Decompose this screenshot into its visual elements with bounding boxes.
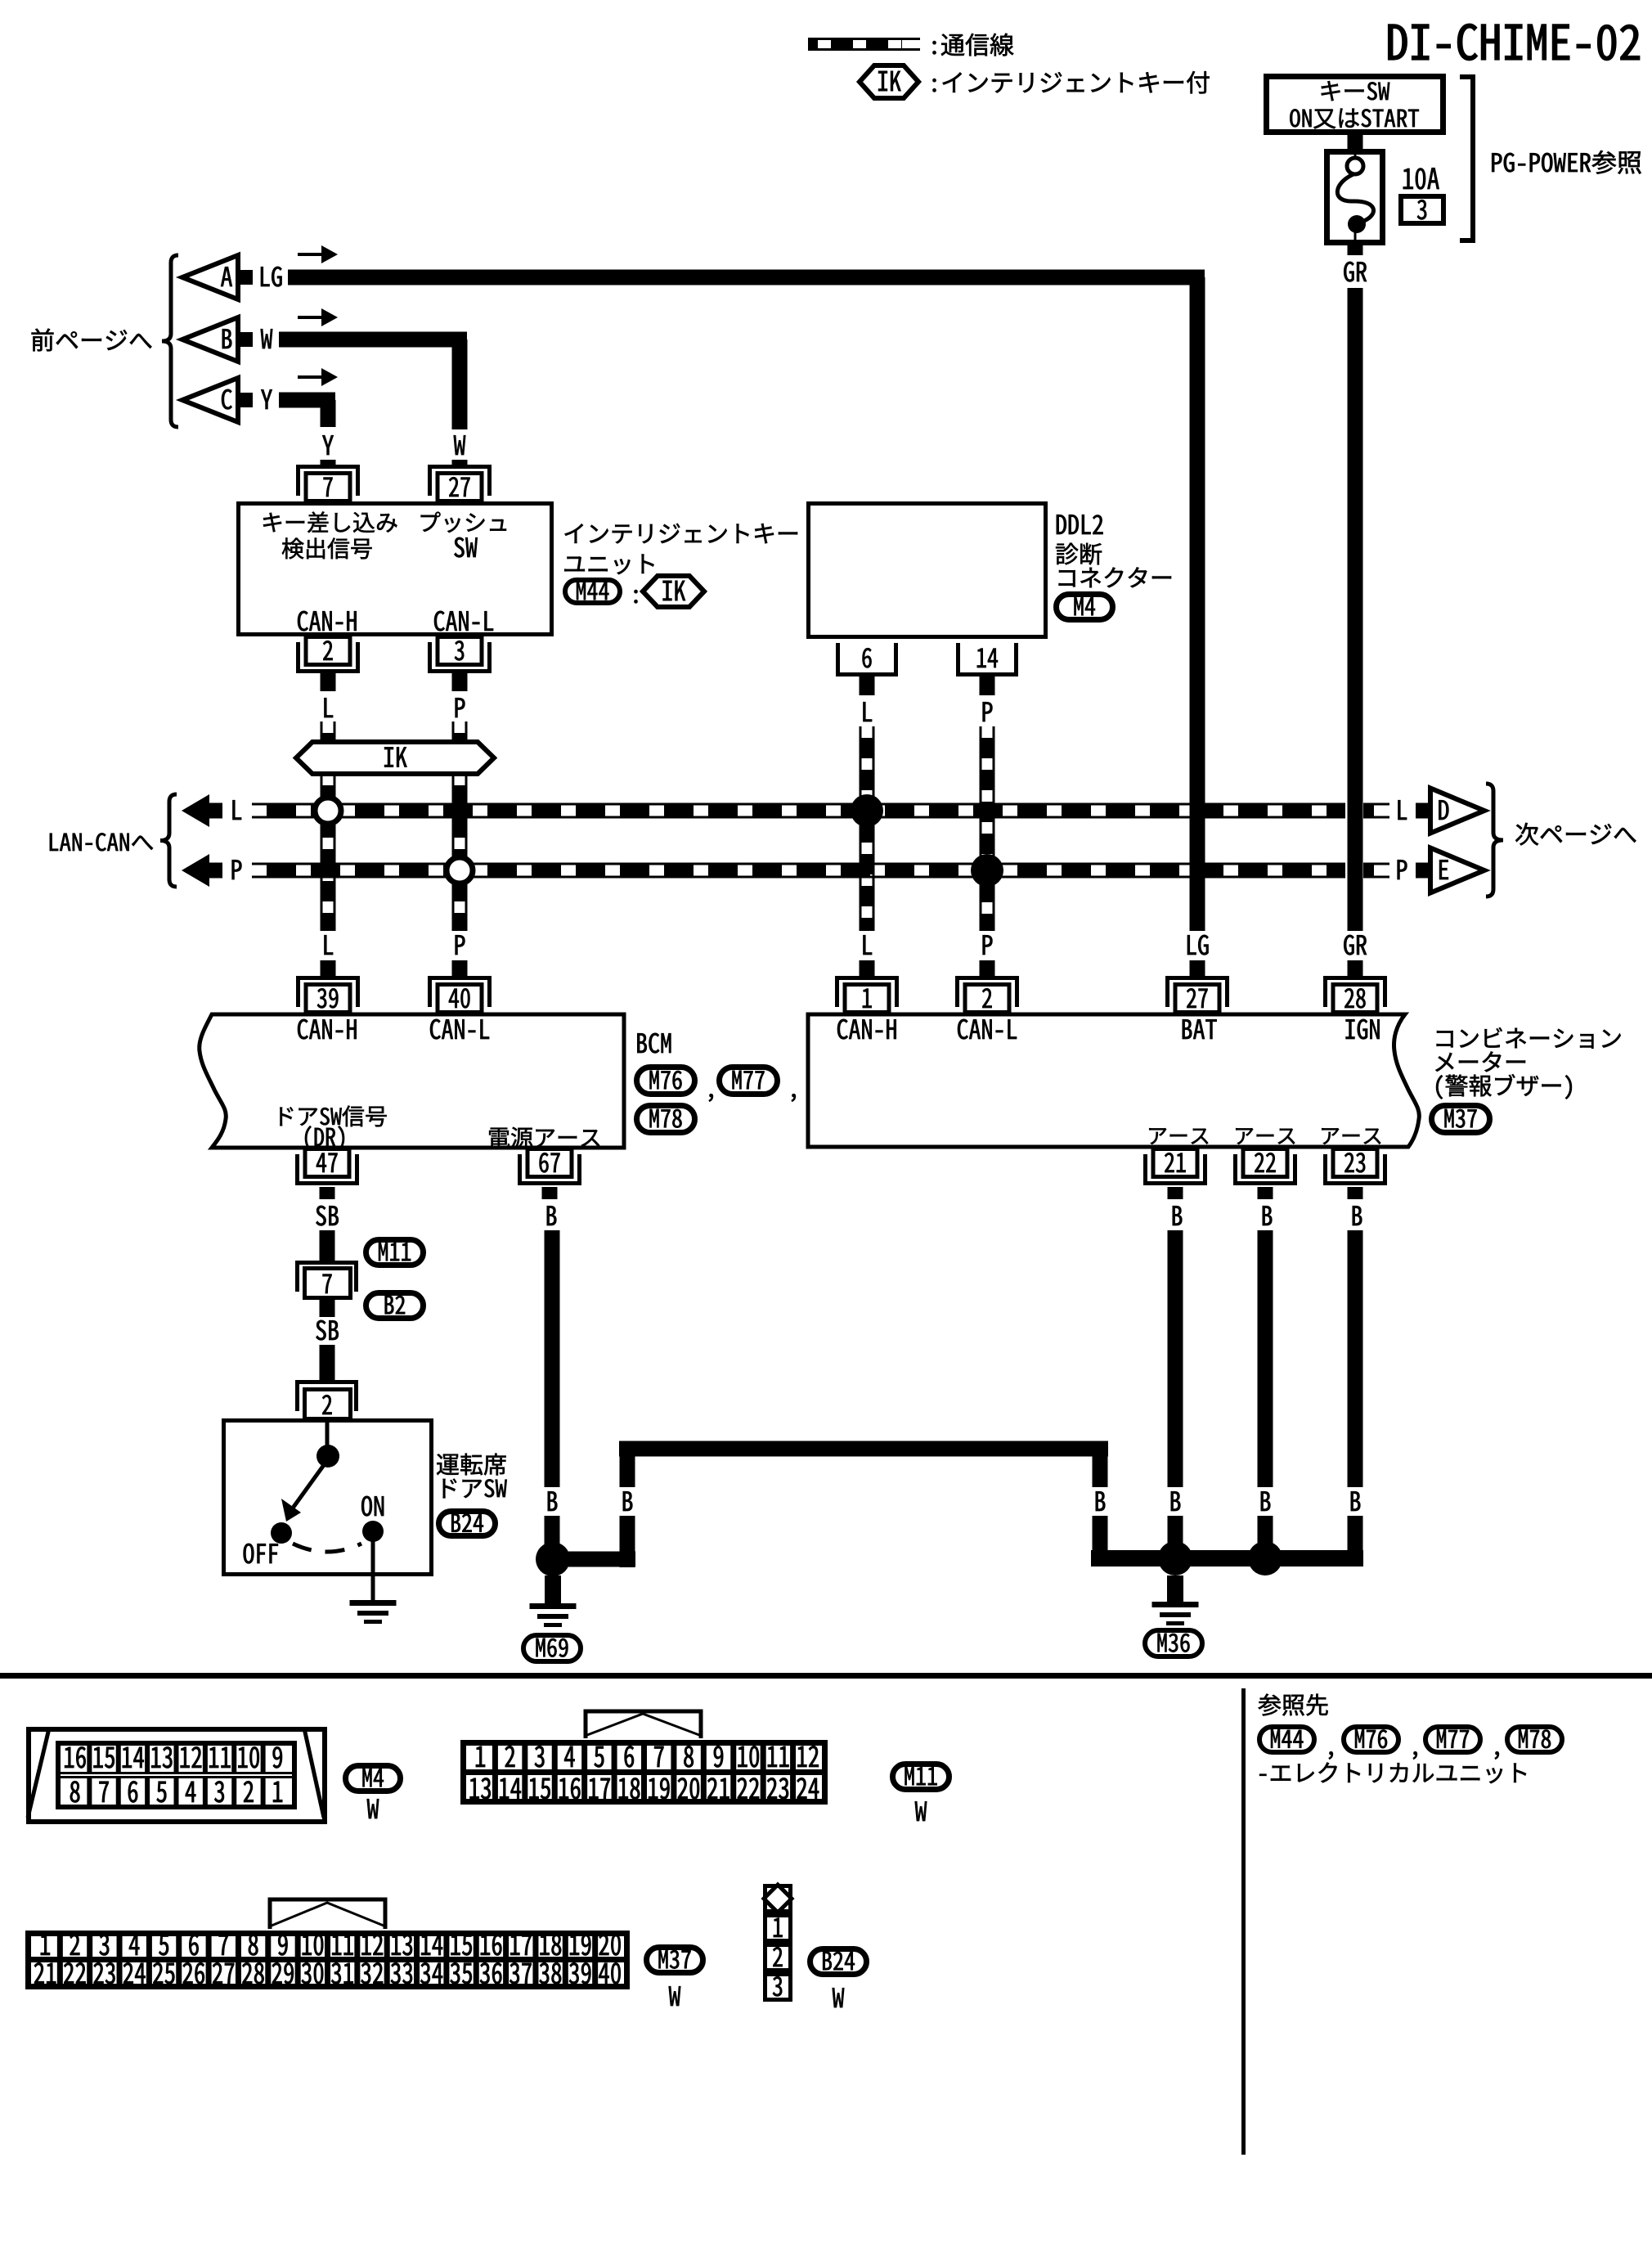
wire P from pin14 xyxy=(980,676,995,695)
vertical divider xyxy=(1241,1688,1246,2155)
brace LAN-CAN xyxy=(160,794,177,887)
wire GR label below fuse xyxy=(1348,245,1363,255)
pin 47 xyxy=(295,1181,359,1185)
brace prev page xyxy=(162,255,178,427)
connector ref M11 xyxy=(366,1240,424,1265)
triangle B xyxy=(182,317,238,362)
connector ref M76 list xyxy=(1344,1727,1398,1752)
switch ON contact xyxy=(362,1521,384,1542)
label Y xyxy=(261,389,272,409)
label 参照先 xyxy=(1259,1694,1282,1716)
pin 22 xyxy=(1233,1181,1297,1185)
pin 28 meter xyxy=(1323,976,1387,980)
junction filled L xyxy=(851,794,883,827)
label L above pin 39 xyxy=(324,935,333,955)
label LG xyxy=(261,267,270,286)
wire B from pin 21 xyxy=(1168,1187,1183,1199)
wire SB from pin 47 xyxy=(320,1187,335,1199)
switch arm arrow xyxy=(290,1459,328,1513)
stub A xyxy=(238,270,253,285)
legend IK hexagon xyxy=(860,65,918,98)
arrow A xyxy=(298,253,323,256)
legend communication line sample xyxy=(808,38,920,40)
stub B xyxy=(238,332,253,347)
label Y above pin 7 xyxy=(322,435,334,455)
pin 1 xyxy=(835,976,899,980)
bridge right drop xyxy=(1093,1449,1108,1487)
connector ref M44 xyxy=(565,580,620,603)
pin 27 xyxy=(428,465,492,469)
wire B from pin 67 xyxy=(542,1187,558,1199)
label 前ページへ xyxy=(32,329,54,352)
arrow C xyxy=(298,375,323,379)
pin 14 xyxy=(956,643,960,676)
connector ref M11 bottom xyxy=(893,1764,949,1790)
connector face B24 xyxy=(765,1886,791,1912)
junction open L xyxy=(315,798,341,824)
label DDL2 診断コネクター xyxy=(1057,515,1066,534)
connector ref M4 xyxy=(1057,595,1113,620)
legend label 通信線 xyxy=(932,41,936,54)
pin 23 xyxy=(1323,1181,1387,1185)
bridge wire xyxy=(619,1441,1108,1457)
comm wire to meter pin1 xyxy=(860,811,862,931)
label L above pin 1 xyxy=(863,935,872,955)
box DDL2 connector xyxy=(809,504,1046,637)
pin 39 xyxy=(296,976,360,980)
comm wire L vertical xyxy=(321,774,323,931)
fuse rating 10A xyxy=(1403,169,1413,189)
IK hexagon ref xyxy=(643,576,704,607)
wire Y xyxy=(279,393,335,408)
wire GR vertical xyxy=(1348,288,1363,931)
junction M36 xyxy=(1158,1541,1192,1575)
wire LG horizontal xyxy=(288,270,1205,285)
P bus xyxy=(252,863,1345,865)
arrow B xyxy=(298,316,323,319)
pin 21 xyxy=(1143,1181,1207,1185)
triangle A xyxy=(182,255,238,299)
box BCM xyxy=(200,1014,624,1148)
connector ref M77 xyxy=(720,1068,778,1095)
arrow P bus xyxy=(182,854,209,887)
junction filled P xyxy=(971,854,1003,887)
pin 67 xyxy=(518,1181,581,1185)
junction M69 xyxy=(536,1542,570,1576)
title DI-CHIME-02 xyxy=(1389,25,1407,60)
wire L from pin2 xyxy=(321,673,336,691)
comm wire to meter pin2 xyxy=(980,870,982,931)
connector ref M78 xyxy=(637,1106,695,1133)
wire L from pin6 xyxy=(860,676,875,695)
wire B from pin 22 xyxy=(1258,1187,1273,1199)
box intelligent key unit xyxy=(239,504,552,635)
label エレクトリカルユニット xyxy=(1259,1774,1266,1776)
fuse number 3 xyxy=(1401,196,1443,223)
pin 40 xyxy=(428,976,492,980)
switch to ground line xyxy=(371,1541,375,1600)
switch dashed arc xyxy=(293,1544,361,1552)
triangle E xyxy=(1430,848,1484,893)
pin 27 meter xyxy=(1165,976,1229,980)
connector face M4 xyxy=(29,1729,325,1822)
connector face M11 xyxy=(586,1711,701,1738)
label 次ページへ xyxy=(1515,823,1538,846)
connector ref M77 list xyxy=(1425,1727,1480,1752)
label P above pin 2 xyxy=(983,935,993,955)
pin 6 xyxy=(836,643,840,676)
separator line xyxy=(0,1673,1652,1679)
wire LG vertical xyxy=(1190,277,1205,931)
pin 3 xyxy=(428,669,492,673)
label 運転席ドアSW xyxy=(437,1454,459,1475)
L bus xyxy=(252,803,1345,806)
label PG-POWER参照 xyxy=(1492,153,1502,172)
wire SB below inline connector xyxy=(320,1300,335,1317)
pin 2 meter xyxy=(955,976,1019,980)
connector ref M37 xyxy=(1432,1106,1490,1133)
ground M69 xyxy=(545,1575,561,1603)
fuse F3 10A xyxy=(1327,152,1383,243)
ground M36 xyxy=(1167,1575,1183,1602)
arrow L bus xyxy=(182,794,209,827)
box combination meter xyxy=(808,1014,1419,1147)
triangle D xyxy=(1430,789,1484,834)
bracket PG-POWER xyxy=(1460,77,1473,240)
label BCM xyxy=(637,1033,646,1053)
connector ref M78 list xyxy=(1507,1727,1562,1752)
label LG above pin 27 xyxy=(1187,935,1196,955)
legend label インテリジェントキー付 xyxy=(932,79,936,92)
pin 2 door switch xyxy=(295,1380,358,1384)
label W above pin 27 xyxy=(454,435,466,455)
label コンビネーションメーター(警報ブザー) xyxy=(1437,1031,1453,1047)
pin 2 xyxy=(296,669,360,673)
box key SW ON/START xyxy=(1267,77,1443,133)
wire W xyxy=(279,332,467,348)
box driver door switch xyxy=(224,1421,432,1575)
connector face M37 xyxy=(270,1899,385,1929)
wire stub key SW to fuse xyxy=(1348,135,1363,149)
connector ref M37 bottom xyxy=(647,1948,703,1973)
label LAN-CANへ xyxy=(50,834,58,851)
wire B from pin 23 xyxy=(1348,1187,1363,1199)
switch common contact xyxy=(316,1445,339,1468)
inline connector M11/B2 pin 7 xyxy=(295,1261,358,1265)
comm wire P vertical xyxy=(452,774,455,931)
label P above pin 40 xyxy=(456,935,465,955)
connector ref B24 bottom xyxy=(810,1949,867,1975)
wire junction to bridge xyxy=(564,1552,635,1567)
connector ref M76 xyxy=(637,1068,695,1095)
connector ref B2 xyxy=(366,1293,424,1319)
triangle C xyxy=(182,378,238,422)
label W xyxy=(261,329,273,348)
brace next page xyxy=(1486,784,1503,897)
collector wire to M36 xyxy=(1091,1550,1363,1567)
connector ref B24 xyxy=(439,1512,496,1536)
wire P from pin3 xyxy=(452,673,468,691)
switch OFF contact xyxy=(271,1522,292,1544)
junction M36 b xyxy=(1248,1541,1282,1575)
junction open P xyxy=(447,857,473,883)
L bus end piece xyxy=(1363,803,1374,819)
connector ref M4 bottom xyxy=(346,1766,401,1791)
P bus end piece xyxy=(1363,863,1374,879)
IK band hexagon xyxy=(296,742,494,774)
stub C xyxy=(238,393,253,407)
ground door switch xyxy=(350,1600,397,1606)
pin 7 xyxy=(296,465,360,469)
connector ref M44 list xyxy=(1259,1727,1314,1752)
label インテリジェントキーユニット xyxy=(564,524,583,543)
